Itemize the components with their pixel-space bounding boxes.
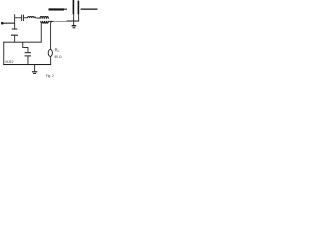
svg-text:50 Ω: 50 Ω <box>54 55 62 59</box>
wire <box>24 16 28 19</box>
source box left edge <box>2 42 5 65</box>
wire <box>67 21 80 22</box>
wire down to C3 <box>27 47 30 52</box>
wire load drop <box>51 22 52 50</box>
capacitor C2 <box>11 29 18 36</box>
wire top of box <box>3 41 41 44</box>
wire C2 to box <box>13 36 16 42</box>
inductor L1 <box>28 17 36 19</box>
wire output <box>81 9 98 10</box>
RF choke L2 (solid bar) <box>49 8 65 10</box>
wire (faint middle) <box>54 20 67 23</box>
svg-text:MJE2: MJE2 <box>5 60 13 64</box>
wire <box>64 9 67 10</box>
wire jog <box>22 46 28 49</box>
wire node A vertical <box>13 14 16 28</box>
ground <box>32 71 37 74</box>
load R_L (oval body) <box>48 49 52 56</box>
wire secondary to output net <box>48 21 53 22</box>
transformer T1 primary <box>40 17 48 19</box>
wire input <box>4 23 15 24</box>
svg-text:Fig. 2: Fig. 2 <box>46 74 54 78</box>
bottom rail <box>3 64 51 65</box>
wire B lower <box>77 14 80 21</box>
wire box right edge <box>21 42 24 48</box>
capacitor C3 <box>25 52 31 56</box>
wire <box>15 16 21 19</box>
ground stem <box>33 65 36 72</box>
svg-text:RL: RL <box>55 48 60 54</box>
capacitor C4 plate / bypass wire A <box>73 0 75 14</box>
ground 2 <box>72 25 77 28</box>
wire secondary left drop <box>40 24 43 43</box>
transformer T1 secondary <box>41 21 49 23</box>
wire C3 to rail <box>27 56 30 64</box>
capacitor C4 plate / wire B <box>78 1 80 15</box>
wire load to rail <box>49 56 52 64</box>
input terminal J1 <box>1 22 4 25</box>
wire <box>36 17 40 20</box>
wire A lower <box>72 14 75 25</box>
capacitor C1 <box>21 15 24 21</box>
